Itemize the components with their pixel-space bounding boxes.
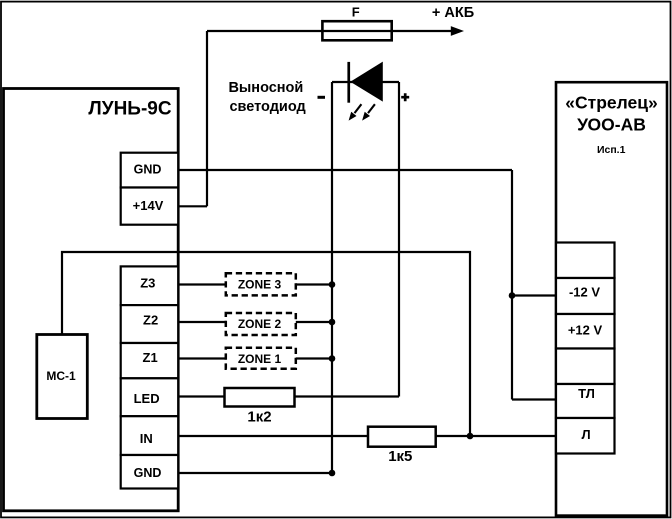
terminal GND (bottom)	[121, 455, 179, 489]
svg-text:Исп.1: Исп.1	[597, 144, 626, 156]
zone resistor ZONE 2	[226, 313, 296, 335]
terminal (empty top right)	[556, 243, 615, 279]
terminal (empty middle right)	[556, 349, 615, 385]
wire GND bottom	[178, 472, 332, 474]
svg-text:«Стрелец»: «Стрелец»	[565, 93, 657, 113]
svg-text:IN: IN	[140, 431, 153, 446]
terminal Л	[556, 418, 615, 454]
terminal Z2	[121, 305, 179, 343]
wire LED top horizontal	[332, 81, 399, 83]
svg-text:GND: GND	[134, 162, 162, 176]
svg-text:1к5: 1к5	[388, 448, 412, 465]
svg-text:LED: LED	[134, 391, 160, 406]
terminal ТЛ	[556, 384, 615, 418]
svg-text:1к2: 1к2	[247, 409, 271, 426]
wire ТЛ	[512, 398, 556, 400]
junction IN/МС-1	[467, 433, 474, 440]
zone resistor ZONE 3	[226, 273, 296, 295]
svg-text:+12 V: +12 V	[568, 322, 603, 337]
junction zone1/bus	[329, 355, 336, 362]
terminal -12 V	[556, 278, 615, 314]
junction -12V/bracket	[509, 292, 516, 299]
wire IN to Л	[178, 435, 556, 437]
LED plus sign	[401, 93, 409, 101]
module МС-1	[37, 335, 88, 419]
terminal Z1	[121, 343, 179, 378]
LED minus sign	[318, 96, 326, 99]
wire LED anode vertical	[398, 82, 400, 397]
svg-text:УОО-АВ: УОО-АВ	[577, 114, 646, 134]
wire -12V	[512, 294, 556, 296]
resistor 1к5	[368, 427, 436, 447]
svg-text:Выносной: Выносной	[228, 80, 303, 96]
svg-text:F: F	[352, 4, 360, 19]
svg-text:+ АКБ: + АКБ	[432, 5, 474, 21]
svg-text:МС-1: МС-1	[46, 369, 76, 383]
zone resistor ZONE 1	[226, 348, 296, 369]
svg-text:Z3: Z3	[140, 275, 155, 290]
LED triangle	[350, 62, 383, 102]
svg-text:ZONE 1: ZONE 1	[238, 352, 282, 366]
terminal IN	[121, 416, 179, 455]
svg-text:ZONE 2: ZONE 2	[238, 317, 282, 331]
svg-text:ZONE 3: ZONE 3	[238, 277, 282, 291]
wire Z1	[178, 357, 332, 359]
svg-text:ЛУНЬ-9С: ЛУНЬ-9С	[88, 98, 171, 119]
svg-text:-12 V: -12 V	[569, 285, 600, 300]
LED Выносной светодиод: cathode bar	[347, 62, 350, 103]
wire LED terminal to anode	[178, 395, 399, 397]
wire +АКБ line	[207, 30, 453, 32]
node + АКБ arrowhead	[451, 26, 464, 36]
wire +14V	[178, 205, 207, 207]
LED light arrow 1	[349, 104, 362, 120]
terminal GND (top)	[121, 153, 179, 188]
block ЛУНЬ-9С	[4, 89, 179, 511]
wire GND top (ЛУНЬ GND to Стрелец -12V/ТЛ)	[178, 169, 512, 171]
resistor 1к2	[225, 388, 295, 407]
terminal LED	[121, 378, 179, 416]
block «Стрелец» УОО-АВ	[556, 82, 667, 515]
wire +14V vertical to fuse line	[206, 31, 208, 206]
terminal Z3	[121, 266, 179, 305]
svg-text:GND: GND	[134, 466, 162, 480]
wire Z2	[178, 321, 332, 323]
svg-text:Л: Л	[581, 427, 590, 442]
wire Z3	[178, 283, 332, 285]
terminal +14V	[121, 188, 179, 225]
svg-text:светодиод: светодиод	[229, 99, 305, 115]
junction zone2/bus	[329, 319, 336, 326]
wire GND bus / LED cathode vertical	[331, 82, 333, 473]
svg-text:Z2: Z2	[143, 313, 158, 328]
junction bus/GND	[329, 470, 336, 477]
svg-text:+14V: +14V	[133, 198, 164, 213]
wire bracket vertical at x=512	[511, 170, 513, 400]
LED light arrow 2	[362, 104, 375, 120]
wire МС-1 to IN junction	[62, 252, 470, 436]
junction zone3/bus	[329, 281, 336, 288]
svg-text:Z1: Z1	[143, 350, 158, 365]
fuse F	[322, 21, 391, 40]
terminal +12 V	[556, 314, 615, 349]
svg-text:ТЛ: ТЛ	[578, 386, 595, 401]
